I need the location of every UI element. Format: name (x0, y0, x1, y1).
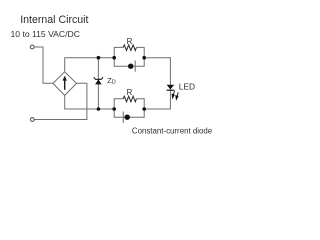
junction node top-left of zener on top bus (97, 56, 101, 60)
resistor R (bottom) zigzag (123, 96, 136, 102)
wire top bus right of box to LED (144, 58, 170, 85)
wire from T1 to bridge left vertex (34, 47, 53, 83)
junction node top box right (142, 56, 146, 60)
svg-text:R: R (127, 88, 133, 97)
constant-current diode CRD2 (bottom) (122, 112, 132, 123)
terminal T2 (bottom input) (30, 118, 34, 122)
wire from bridge top vertex to top bus (65, 58, 115, 72)
svg-text:10 to 115 VAC/DC: 10 to 115 VAC/DC (11, 29, 80, 39)
svg-text:Constant-current diode: Constant-current diode (132, 126, 213, 135)
wire from bridge right vertex down to T2 (34, 83, 87, 119)
zener diode ZD symbol (94, 77, 103, 84)
resistor R (top) zigzag (123, 45, 136, 51)
LED D1 symbol (167, 85, 175, 91)
svg-text:Internal Circuit: Internal Circuit (20, 14, 88, 26)
junction node bottom box right (142, 107, 146, 111)
junction node top box left (112, 56, 116, 60)
svg-text:LED: LED (179, 81, 195, 91)
junction node bottom box left (112, 107, 116, 111)
arrow inside bridge B1 (63, 76, 67, 90)
zener diode ZD wire (97, 58, 99, 109)
bottom parallel box frame (R parallel CRD2) (114, 99, 144, 118)
constant-current diode CRD1 (top) (126, 60, 136, 71)
wire bottom bus right of box to LED branch (144, 90, 170, 109)
svg-text:R: R (127, 37, 133, 46)
wire from bridge bottom vertex to bottom bus (65, 95, 115, 109)
constant-current bridge B1 (diamond) (53, 72, 77, 96)
terminal T1 (top input) (30, 45, 34, 49)
junction node bottom of zener on bottom bus (97, 107, 101, 111)
LED emission arrows (172, 91, 178, 100)
top parallel box frame (R parallel CRD1) (114, 47, 144, 66)
